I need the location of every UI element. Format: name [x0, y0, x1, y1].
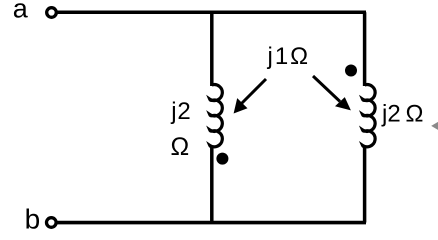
- wire right vertical lower: [363, 147, 367, 223]
- svg-text:j1Ω: j1Ω: [267, 43, 311, 70]
- arrow to L2: [313, 76, 340, 102]
- svg-text:a: a: [13, 0, 29, 23]
- wire top horizontal: [58, 11, 367, 15]
- terminal a: [47, 8, 57, 18]
- inductor L1 (left, j2 ohm): [210, 85, 223, 147]
- svg-text:Ω: Ω: [171, 133, 190, 161]
- cursor artifact: [431, 122, 438, 130]
- wire middle vertical upper: [210, 12, 214, 86]
- polarity dot L1: [216, 153, 228, 165]
- svg-text:j2: j2: [170, 98, 191, 125]
- wire middle vertical lower: [210, 147, 214, 223]
- terminal b: [47, 218, 57, 228]
- svg-text:j2 Ω: j2 Ω: [381, 101, 423, 128]
- wire right vertical upper: [363, 12, 367, 86]
- svg-text:b: b: [25, 204, 41, 234]
- arrow to L1: [241, 79, 266, 104]
- polarity dot L2: [345, 65, 357, 77]
- wire bottom horizontal: [57, 221, 366, 225]
- inductor L2 (right, j2 ohm): [363, 85, 376, 147]
